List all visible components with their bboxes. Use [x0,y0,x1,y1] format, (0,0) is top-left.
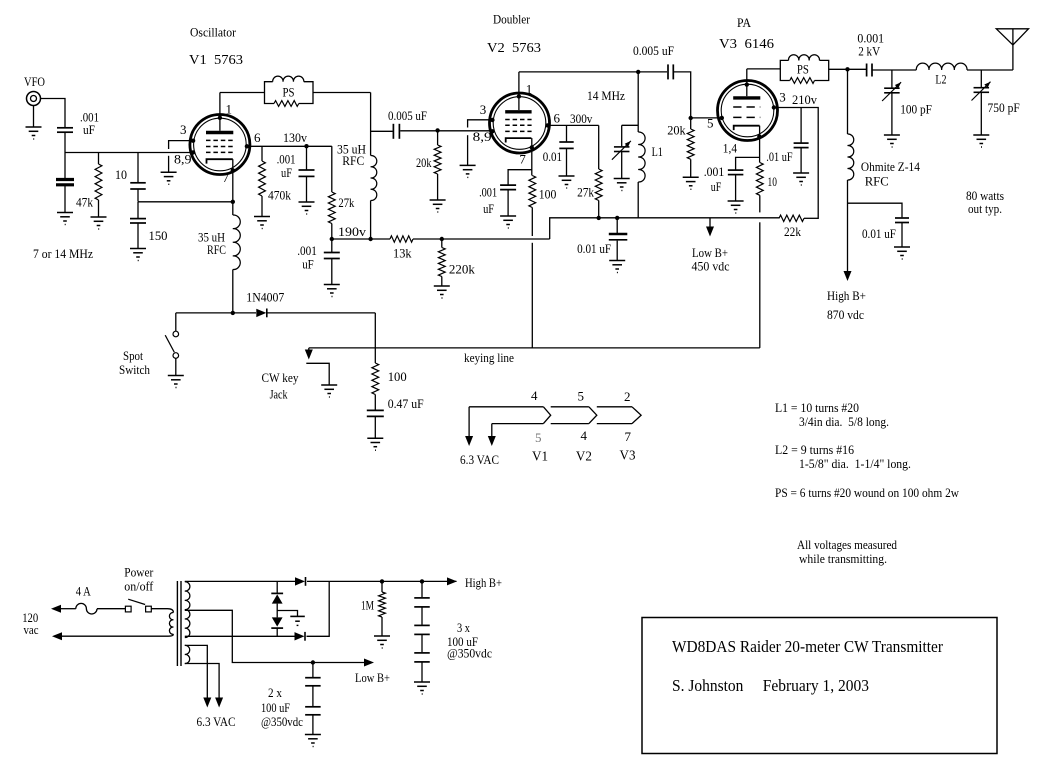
svg-text:L2 = 9 turns #16: L2 = 9 turns #16 [775,442,854,457]
svg-text:uF: uF [483,202,494,216]
svg-text:1N4007: 1N4007 [246,290,284,305]
svg-text:7: 7 [223,170,230,185]
svg-text:Oscillator: Oscillator [190,25,237,40]
svg-text:7 or 14 MHz: 7 or 14 MHz [33,246,93,261]
svg-text:All voltages measured: All voltages measured [797,537,897,552]
svg-text:5: 5 [535,430,542,445]
svg-text:while transmitting.: while transmitting. [799,551,887,566]
svg-text:L2: L2 [935,71,946,86]
svg-text:V1 5763: V1 5763 [189,53,243,68]
svg-text:27k: 27k [577,184,594,199]
svg-text:0.01 uF: 0.01 uF [577,241,611,256]
svg-text:@350vdc: @350vdc [447,646,492,661]
svg-text:1: 1 [226,101,233,116]
svg-text:7: 7 [625,429,632,444]
svg-text:0.01 uF: 0.01 uF [862,226,896,241]
svg-text:20k: 20k [667,122,686,137]
svg-text:uF: uF [302,258,314,272]
svg-text:27k: 27k [338,195,354,210]
svg-text:1M: 1M [361,598,374,613]
svg-text:210v: 210v [792,92,817,107]
svg-text:6: 6 [554,111,561,126]
svg-text:6.3 VAC: 6.3 VAC [460,452,499,467]
svg-text:100 uF: 100 uF [261,700,290,715]
svg-text:RFC: RFC [207,242,226,257]
svg-text:2: 2 [624,389,631,404]
svg-text:S. Johnston February 1, 20: S. Johnston February 1, 2003 [672,676,869,695]
svg-text:V3: V3 [620,449,636,464]
svg-text:V2: V2 [576,450,592,465]
svg-text:Power: Power [124,564,154,579]
svg-text:Low B+: Low B+ [355,670,390,685]
svg-text:4: 4 [531,388,538,403]
svg-text:8,9: 8,9 [174,152,192,167]
svg-text:L1 = 10 turns #20: L1 = 10 turns #20 [775,400,859,415]
svg-text:100 pF: 100 pF [900,102,932,117]
svg-text:WD8DAS Raider 20-meter CW Tran: WD8DAS Raider 20-meter CW Transmitter [672,637,943,656]
svg-text:20k: 20k [416,155,432,170]
svg-text:10: 10 [115,167,127,182]
svg-text:PS = 6 turns #20 wound on 100: PS = 6 turns #20 wound on 100 ohm 2w [775,485,960,500]
svg-text:vac: vac [24,622,39,637]
svg-text:1,4: 1,4 [723,141,738,156]
svg-text:uF: uF [281,166,292,180]
svg-text:3: 3 [779,89,786,104]
svg-text:150: 150 [149,228,168,243]
svg-text:out typ.: out typ. [968,201,1002,216]
svg-text:4 A: 4 A [76,584,91,599]
svg-text:3/4in dia. 5/8 long.: 3/4in dia. 5/8 long. [799,414,889,429]
svg-text:.001: .001 [277,153,296,167]
svg-text:CW key: CW key [262,370,299,385]
svg-text:Spot: Spot [123,348,143,363]
svg-text:870 vdc: 870 vdc [827,307,864,322]
svg-text:2 kV: 2 kV [858,44,881,59]
svg-text:@350vdc: @350vdc [261,714,303,729]
svg-text:450 vdc: 450 vdc [692,259,730,274]
svg-text:0.47 uF: 0.47 uF [388,397,424,411]
svg-text:RFC: RFC [342,153,364,168]
svg-text:High B+: High B+ [827,288,866,303]
svg-text:100: 100 [388,369,407,384]
svg-text:Jack: Jack [270,386,288,401]
svg-text:High B+: High B+ [465,575,502,590]
svg-text:Doubler: Doubler [493,12,531,27]
svg-text:PS: PS [283,86,295,100]
svg-text:47k: 47k [76,195,93,210]
svg-text:14 MHz: 14 MHz [587,88,625,103]
svg-text:1: 1 [526,82,533,97]
svg-text:3 x: 3 x [457,620,470,635]
svg-text:.001: .001 [297,244,317,258]
svg-text:6: 6 [254,130,261,145]
svg-text:V1: V1 [532,450,548,465]
svg-text:2 x: 2 x [268,685,282,700]
svg-text:6.3 VAC: 6.3 VAC [197,714,236,729]
svg-text:uF: uF [711,180,722,194]
svg-text:470k: 470k [268,187,291,202]
svg-text:5: 5 [707,116,714,131]
svg-text:L1: L1 [652,144,663,159]
svg-text:130v: 130v [283,130,307,145]
svg-text:Ohmite Z-14: Ohmite Z-14 [861,159,920,174]
svg-text:V2 5763: V2 5763 [487,41,541,56]
svg-text:750 pF: 750 pF [988,100,1020,115]
svg-text:3: 3 [180,122,187,137]
svg-text:0.005 uF: 0.005 uF [388,109,427,123]
svg-text:190v: 190v [338,224,367,239]
svg-text:1-5/8" dia. 1-1/4" long.: 1-5/8" dia. 1-1/4" long. [799,456,911,471]
svg-text:8,9: 8,9 [473,129,492,144]
svg-text:.001: .001 [704,165,725,179]
svg-text:PS: PS [797,62,809,76]
svg-text:.001: .001 [479,185,497,199]
svg-text:PA: PA [737,15,752,30]
svg-text:3: 3 [480,102,487,117]
svg-text:300v: 300v [570,111,593,126]
svg-text:uF: uF [83,123,95,137]
svg-text:220k: 220k [449,261,476,276]
svg-text:7: 7 [519,152,526,167]
svg-text:VFO: VFO [24,74,45,89]
svg-text:4: 4 [581,428,588,443]
svg-text:Switch: Switch [119,362,150,377]
svg-text:0.005 uF: 0.005 uF [633,44,674,58]
svg-text:keying line: keying line [464,350,514,365]
svg-text:0.01: 0.01 [543,149,562,164]
svg-text:on/off: on/off [124,579,154,594]
svg-text:5: 5 [578,389,585,404]
svg-text:10: 10 [768,174,777,189]
svg-text:100: 100 [539,187,557,202]
svg-text:.01 uF: .01 uF [766,149,792,164]
svg-text:22k: 22k [784,224,801,239]
svg-text:RFC: RFC [865,173,889,188]
svg-text:13k: 13k [393,246,412,261]
svg-text:V3 6146: V3 6146 [719,37,774,52]
